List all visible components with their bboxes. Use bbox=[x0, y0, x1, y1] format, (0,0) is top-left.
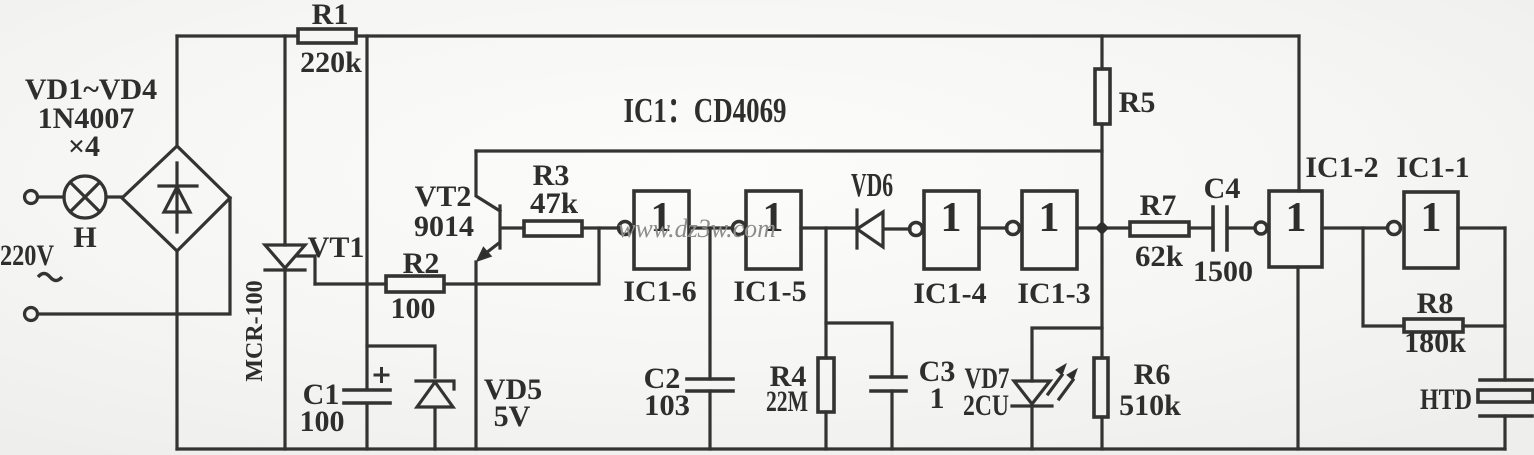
svg-text:180k: 180k bbox=[1404, 326, 1466, 359]
svg-text:IC1-6: IC1-6 bbox=[623, 275, 696, 308]
svg-text:100: 100 bbox=[391, 292, 436, 325]
svg-text:1: 1 bbox=[941, 195, 962, 241]
svg-text:220k: 220k bbox=[300, 46, 362, 79]
svg-text:220V: 220V bbox=[0, 239, 54, 272]
svg-text:R7: R7 bbox=[1140, 189, 1177, 222]
svg-text:9014: 9014 bbox=[414, 210, 474, 243]
svg-text:R1: R1 bbox=[312, 0, 349, 31]
svg-text:C4: C4 bbox=[1204, 172, 1241, 205]
svg-text:H: H bbox=[73, 221, 96, 254]
svg-text:IC1-4: IC1-4 bbox=[913, 277, 986, 310]
svg-text:IC1-5: IC1-5 bbox=[733, 275, 806, 308]
svg-text:5V: 5V bbox=[494, 400, 531, 433]
svg-text:MCR-100: MCR-100 bbox=[242, 280, 268, 381]
svg-text:1: 1 bbox=[1421, 195, 1442, 241]
svg-text:100: 100 bbox=[300, 405, 345, 438]
svg-text:1: 1 bbox=[930, 382, 945, 415]
svg-text:HTD: HTD bbox=[1420, 383, 1472, 416]
svg-text:R5: R5 bbox=[1119, 86, 1156, 119]
svg-text:VT1: VT1 bbox=[308, 231, 365, 264]
svg-text:62k: 62k bbox=[1135, 240, 1183, 273]
svg-text:2CU: 2CU bbox=[963, 389, 1009, 422]
svg-text:VT2: VT2 bbox=[415, 180, 472, 213]
svg-text:R2: R2 bbox=[403, 247, 440, 280]
svg-text:IC1-3: IC1-3 bbox=[1017, 277, 1090, 310]
svg-text:×4: ×4 bbox=[68, 130, 100, 163]
svg-text:IC1-2: IC1-2 bbox=[1305, 151, 1378, 184]
svg-text:47k: 47k bbox=[530, 187, 578, 220]
svg-text:R8: R8 bbox=[1417, 287, 1454, 320]
svg-text:IC1：CD4069: IC1：CD4069 bbox=[624, 91, 787, 130]
svg-text:IC1-1: IC1-1 bbox=[1396, 151, 1469, 184]
svg-text:103: 103 bbox=[644, 389, 690, 422]
svg-text:R6: R6 bbox=[1134, 358, 1171, 391]
svg-text:VD6: VD6 bbox=[851, 167, 893, 204]
svg-text:1: 1 bbox=[1286, 195, 1307, 241]
svg-text:1: 1 bbox=[1039, 195, 1060, 241]
svg-text:1500: 1500 bbox=[1193, 255, 1253, 288]
svg-text:22M: 22M bbox=[766, 385, 808, 418]
svg-text:510k: 510k bbox=[1119, 389, 1181, 422]
svg-text:www.dz3w.com: www.dz3w.com bbox=[618, 214, 776, 243]
